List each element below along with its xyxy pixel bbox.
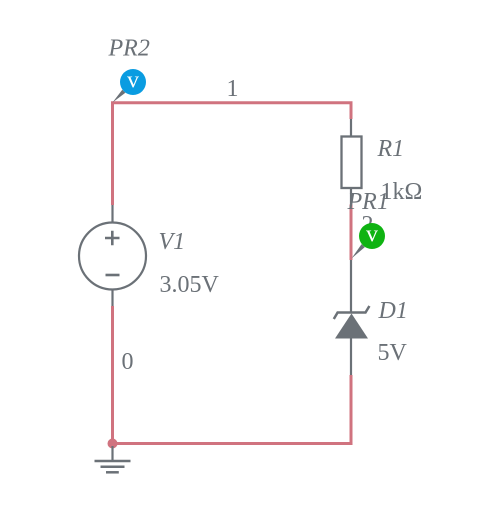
ground bar 3 [106,471,119,474]
svg-text:v: v [366,222,378,248]
V1 minus sign [106,274,120,277]
wire net1 top: left corner to right corner [113,103,352,205]
svg-text:PR2: PR2 [108,36,150,62]
svg-text:3.05V: 3.05V [160,272,220,298]
svg-text:PR1: PR1 [347,189,389,215]
voltage source V1 lead top [111,205,113,223]
probe PR2 needle [113,90,126,103]
svg-text:v: v [127,68,139,94]
probe PR2 body [120,69,146,95]
resistor R1 body [342,137,362,189]
svg-text:0: 0 [122,349,134,375]
resistor R1 lead top [350,119,352,137]
zener diode D1 anode triangle [335,314,368,339]
wire net0 bottom: V1 minus to D1 anode [113,306,352,444]
resistor R1 lead bottom [350,188,352,205]
probe PR1 needle [352,244,365,258]
svg-text:1: 1 [227,76,239,102]
voltage source V1 body [79,223,146,290]
ground bar 2 [101,465,125,468]
probe PR1 body [359,223,385,249]
svg-text:V1: V1 [159,229,186,255]
svg-text:D1: D1 [378,298,408,324]
ground bar 1 [95,460,131,463]
zener diode D1 lead top (cathode) [350,260,352,313]
svg-text:R1: R1 [377,136,405,162]
wire net2: between R1 bottom and D1 top [350,204,353,260]
ground stub [111,446,113,461]
junction node 0 dot [108,439,118,449]
svg-text:5V: 5V [378,340,408,366]
V1 plus sign [105,231,120,245]
zener diode D1 lead bottom (anode) [350,339,352,376]
zener diode D1 cathode bar with wings [334,306,370,319]
voltage source V1 lead bottom [111,289,113,306]
